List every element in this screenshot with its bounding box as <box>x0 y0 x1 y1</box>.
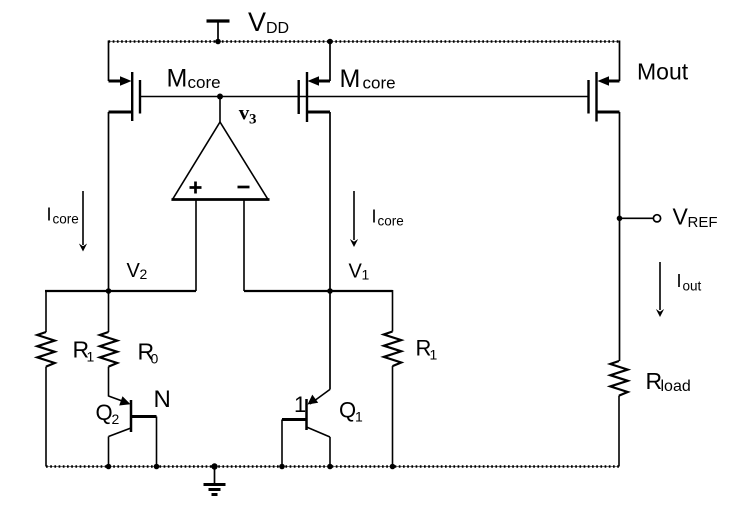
svg-text:1: 1 <box>294 392 306 417</box>
svg-text:1: 1 <box>87 349 95 365</box>
wire Q2 base drop <box>156 417 158 467</box>
svg-text:M: M <box>167 65 188 93</box>
svg-text:V: V <box>248 7 266 37</box>
wire M2 drain drop to V1 <box>329 112 331 291</box>
junction dot VREF tap <box>617 216 623 222</box>
junction dot rail Q2 base <box>154 464 160 470</box>
label Q1 <box>339 398 363 425</box>
resistor R1 left <box>37 332 54 367</box>
svg-text:V: V <box>349 261 363 283</box>
transistor Q1 (PNP mirrored) <box>282 389 330 437</box>
junction dot V1 <box>327 288 333 294</box>
label Q2 <box>96 400 120 427</box>
label I_out <box>677 271 702 294</box>
arrow I_core right <box>350 191 358 247</box>
svg-text:2: 2 <box>140 266 148 282</box>
junction dot rail Q2 collector <box>106 464 112 470</box>
transistor Mout (PMOS mirrored) <box>589 72 620 122</box>
label M_core left <box>167 65 221 93</box>
wire Mout drain drop to Rload <box>619 112 621 361</box>
junction dot V2 <box>106 288 112 294</box>
wire left branch upper lead <box>45 290 47 332</box>
power symbol VDD <box>207 21 230 42</box>
svg-text:Mout: Mout <box>637 59 689 85</box>
label R1 left <box>73 337 95 365</box>
resistor R_load <box>610 361 627 396</box>
junction dot rail Q1 base <box>279 464 285 470</box>
wire left branch lower lead <box>45 367 47 467</box>
arrow I_core left <box>79 191 87 252</box>
svg-text:N: N <box>154 386 171 413</box>
node v3 junction dot <box>217 94 223 100</box>
wire M1 drain drop to V2 <box>108 112 110 291</box>
junction dot rail ground <box>211 463 217 469</box>
wire op-amp output stem <box>219 97 221 124</box>
junction dot rail/M2 source <box>327 39 333 45</box>
svg-text:I: I <box>677 271 682 291</box>
wire gate bus <box>140 96 589 98</box>
svg-text:1: 1 <box>362 267 370 283</box>
label V2 <box>127 260 148 282</box>
junction dot rail/VDD stem <box>215 39 221 45</box>
wire Rload lower lead <box>618 396 620 467</box>
node V2 line <box>45 290 196 292</box>
op-amp U1 <box>172 122 270 200</box>
svg-text:REF: REF <box>688 214 718 231</box>
svg-text:1: 1 <box>355 409 363 425</box>
svg-text:3: 3 <box>249 111 257 127</box>
svg-text:V: V <box>673 204 689 230</box>
svg-text:core: core <box>53 212 79 227</box>
wire VDD rail (dotted) <box>109 41 620 43</box>
label M_core middle <box>340 65 396 93</box>
label R_load <box>646 368 691 395</box>
label VREF <box>673 204 718 232</box>
transistor Q2 (PNP) <box>109 396 157 437</box>
resistor R0 <box>100 332 117 367</box>
terminal VREF open circle <box>653 215 660 222</box>
svg-text:load: load <box>661 378 691 395</box>
svg-text:1: 1 <box>430 347 438 363</box>
svg-text:I: I <box>47 205 52 225</box>
arrow I_out <box>656 262 664 317</box>
wire Q2 collector drop <box>108 437 110 467</box>
wire right R1 lower lead <box>392 366 394 466</box>
label R1 right <box>416 336 438 363</box>
label v3 <box>239 100 257 127</box>
svg-text:core: core <box>378 214 404 229</box>
svg-text:Q: Q <box>96 400 113 425</box>
label I_core left <box>47 205 79 227</box>
svg-text:core: core <box>363 74 396 93</box>
wire Q1 collector drop <box>329 437 331 467</box>
wire VREF lead <box>620 217 654 219</box>
resistor R1 right <box>384 332 401 367</box>
svg-text:DD: DD <box>266 20 289 37</box>
wire M2 source drop <box>329 41 331 82</box>
svg-text:Q: Q <box>339 398 356 423</box>
junction dot rail Q1 collector <box>327 464 333 470</box>
wire ground rail (dotted) <box>46 466 619 468</box>
ground symbol <box>204 467 226 495</box>
svg-text:M: M <box>340 65 361 93</box>
svg-text:0: 0 <box>151 351 159 367</box>
wire right R1 upper lead <box>392 290 394 332</box>
label R0 <box>138 339 159 367</box>
label I_core right <box>372 207 404 229</box>
junction dot rail R1 right <box>390 464 396 470</box>
wire R0 lower lead to Q2 emitter <box>108 367 110 397</box>
wire op-amp + input lead <box>195 200 197 292</box>
svg-text:out: out <box>683 279 702 294</box>
wire op-amp - input lead <box>243 200 245 292</box>
wire M1 source drop <box>108 41 110 82</box>
label VDD <box>248 7 289 37</box>
wire R0 upper lead <box>108 291 110 332</box>
wire Q1 emitter lead from V1 <box>329 291 331 389</box>
node V1 line <box>244 290 393 292</box>
wire Q1 base drop <box>281 420 283 467</box>
svg-text:2: 2 <box>112 411 120 427</box>
wire Mout source drop <box>619 41 621 82</box>
svg-text:I: I <box>372 207 377 227</box>
transistor M_core left (PMOS U-left) <box>109 72 141 121</box>
label V1 <box>349 261 370 283</box>
svg-text:core: core <box>188 73 221 92</box>
transistor M_core middle (PMOS mirrored) <box>299 72 330 122</box>
svg-text:V: V <box>127 260 141 282</box>
